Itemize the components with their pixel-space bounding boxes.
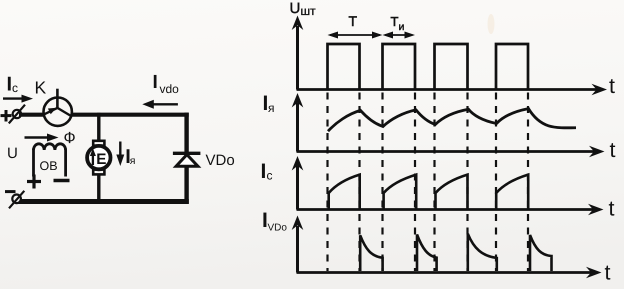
label Ivdo (freewheel current) bbox=[153, 72, 180, 96]
axis Ia vertical bbox=[292, 93, 304, 152]
arrow Ivdo direction (leftwards) bbox=[142, 100, 178, 109]
svg-text:я: я bbox=[130, 155, 136, 167]
svg-text:VDо: VDо bbox=[268, 223, 288, 234]
label Ushim (converter voltage) bbox=[290, 0, 317, 18]
wire right vertical (diode branch) bbox=[184, 113, 188, 204]
svg-text:I: I bbox=[153, 72, 158, 93]
wire motor branch top bbox=[97, 113, 100, 142]
wire top (from + terminal to right corner) bbox=[19, 113, 189, 117]
axis t 4 bbox=[297, 267, 602, 279]
diode VDo (freewheeling) bbox=[173, 153, 201, 166]
dashed gridlines at pulse edges bbox=[328, 93, 529, 272]
scan smudge bbox=[488, 14, 495, 34]
terminal + (positive supply input) bbox=[1, 105, 26, 124]
svg-text:E: E bbox=[96, 151, 106, 168]
svg-text:и: и bbox=[399, 21, 405, 33]
axis IVDo vertical bbox=[292, 216, 304, 273]
axis t 1 bbox=[297, 84, 608, 96]
label Ia (armature current) bbox=[263, 92, 275, 115]
terminal - (negative supply input) bbox=[5, 191, 24, 209]
waveform Ic sawtooth bbox=[329, 175, 529, 209]
waveform IVDo decaying pulses bbox=[360, 234, 551, 271]
svg-text:vdo: vdo bbox=[160, 82, 180, 96]
svg-text:t: t bbox=[610, 138, 616, 162]
transistor K (switch) bbox=[35, 78, 72, 126]
label IVDo (diode current) bbox=[262, 209, 287, 234]
svg-text:я: я bbox=[268, 101, 275, 115]
label Ic (source current) bbox=[7, 74, 19, 96]
svg-text:шт: шт bbox=[301, 4, 317, 18]
axis Ushim vertical bbox=[292, 16, 304, 90]
svg-text:с: с bbox=[12, 81, 18, 95]
axis t 3 bbox=[297, 204, 604, 216]
arrow Ic direction bbox=[3, 95, 33, 103]
polarity - of OB bbox=[54, 179, 70, 183]
svg-text:t: t bbox=[609, 74, 615, 98]
motor armature E (DC machine) bbox=[87, 141, 110, 175]
svg-text:VDo: VDo bbox=[206, 152, 235, 169]
arrow Ia (armature current, downwards) bbox=[116, 142, 124, 167]
wire bottom (return) bbox=[17, 199, 189, 204]
label Ic (source current, diagram) bbox=[261, 160, 273, 183]
svg-text:с: с bbox=[267, 169, 273, 183]
wire motor branch bottom bbox=[97, 174, 100, 204]
svg-text:t: t bbox=[609, 197, 615, 221]
svg-text:T: T bbox=[391, 14, 399, 29]
polarity + of OB bbox=[27, 175, 41, 189]
waveform Ia ripple bbox=[328, 109, 576, 132]
svg-text:U: U bbox=[7, 145, 18, 162]
dimension Ti (pulse width) bbox=[383, 14, 416, 39]
axis t 2 bbox=[297, 146, 605, 158]
arrow flux F bbox=[25, 134, 59, 142]
svg-text:Ф: Ф bbox=[64, 130, 76, 147]
pulse train Ushim bbox=[328, 44, 529, 90]
inductor OB (field winding) bbox=[34, 144, 66, 177]
svg-text:K: K bbox=[35, 78, 47, 98]
svg-text:T: T bbox=[349, 13, 358, 29]
dimension T (period) bbox=[328, 13, 383, 39]
svg-text:ОВ: ОВ bbox=[40, 159, 58, 173]
svg-text:t: t bbox=[605, 261, 611, 285]
svg-text:I: I bbox=[261, 160, 267, 183]
axis Ic vertical bbox=[292, 156, 304, 210]
label Ia (armature current) bbox=[125, 146, 135, 168]
svg-text:U: U bbox=[290, 0, 301, 17]
